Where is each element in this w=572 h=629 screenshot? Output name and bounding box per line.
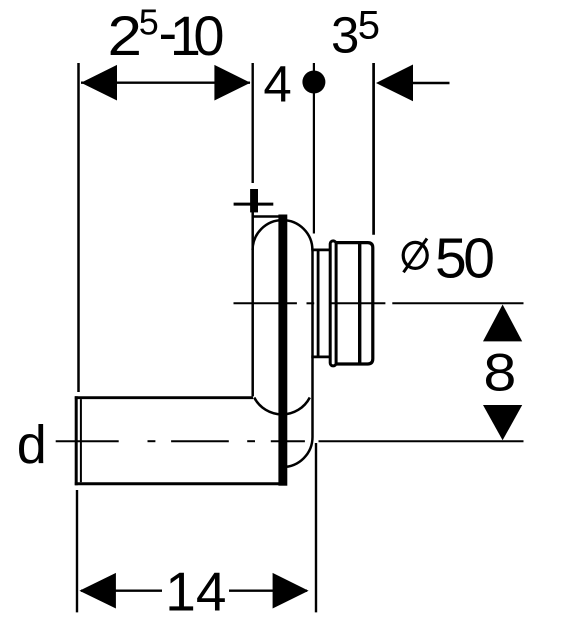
outlet neck face bbox=[317, 249, 320, 358]
trap body right edge bbox=[311, 250, 314, 437]
diameter symbol slash bbox=[404, 239, 428, 273]
outlet socket body bbox=[336, 243, 373, 364]
dimension line 2.5-10 bbox=[81, 82, 250, 84]
diameter symbol circle bbox=[403, 242, 427, 268]
outlet step top bbox=[311, 248, 330, 251]
trap body flat top bbox=[252, 215, 284, 218]
svg-text:2: 2 bbox=[108, 4, 143, 67]
outlet centerline extension (dim 8 upper reference) bbox=[392, 302, 523, 304]
trap body left edge bbox=[251, 212, 254, 396]
svg-text:0: 0 bbox=[193, 4, 224, 67]
extension line right of dim 3.5 bbox=[372, 63, 375, 235]
svg-text:3: 3 bbox=[331, 6, 359, 63]
outlet socket divider bbox=[358, 243, 361, 364]
svg-text:5: 5 bbox=[358, 4, 380, 48]
dim 14 line left segment bbox=[81, 590, 162, 592]
pipe centerline d (dash-dot) bbox=[56, 440, 119, 442]
arrowhead left dim 2.5-10 bbox=[81, 65, 117, 101]
inlet pipe end outer bbox=[75, 396, 78, 485]
svg-text:5: 5 bbox=[435, 226, 467, 290]
dim 14 line right segment bbox=[229, 590, 307, 592]
outlet lip ring bbox=[330, 241, 336, 366]
outlet step bottom bbox=[311, 355, 330, 358]
anchor tick bbox=[250, 189, 258, 212]
outlet centerline dash segments bbox=[234, 302, 297, 304]
inlet pipe end inner bbox=[80, 399, 82, 482]
dim 8 lower arrowhead bbox=[483, 405, 522, 440]
extension line through reference dot bbox=[313, 63, 315, 234]
svg-text:d: d bbox=[17, 415, 47, 475]
dim 8 upper arrowhead bbox=[483, 305, 522, 342]
leader line dim 3.5 bbox=[412, 82, 450, 84]
inner bowl arc bbox=[254, 398, 310, 415]
arrowhead right dim 2.5-10 bbox=[214, 65, 250, 101]
svg-text:8: 8 bbox=[483, 343, 516, 402]
anchor cross line bbox=[234, 203, 274, 206]
dim 14 right arrowhead bbox=[273, 573, 309, 609]
dim 14 left extension line bbox=[76, 490, 78, 612]
dim 14 right extension line bbox=[315, 443, 317, 612]
svg-text:4: 4 bbox=[263, 55, 291, 112]
svg-text:14: 14 bbox=[165, 561, 226, 623]
trap body dome bbox=[253, 220, 313, 250]
arrowhead dim 3.5 bbox=[376, 65, 413, 102]
inlet pipe bottom edge bbox=[75, 482, 283, 485]
extension line right of dim 2.5-10 bbox=[251, 63, 253, 183]
reference dot terminator bbox=[302, 71, 325, 94]
pipe centerline extension (dim 8 lower reference) bbox=[319, 440, 524, 442]
dim 14 left arrowhead bbox=[79, 573, 116, 609]
inlet pipe top edge bbox=[75, 396, 253, 399]
extension line left of dim 2.5-10 bbox=[77, 63, 80, 392]
trap body bottom cap bbox=[283, 437, 313, 467]
svg-text:0: 0 bbox=[463, 226, 495, 290]
svg-text:5: 5 bbox=[139, 1, 159, 42]
wall plate bar bbox=[278, 215, 287, 486]
